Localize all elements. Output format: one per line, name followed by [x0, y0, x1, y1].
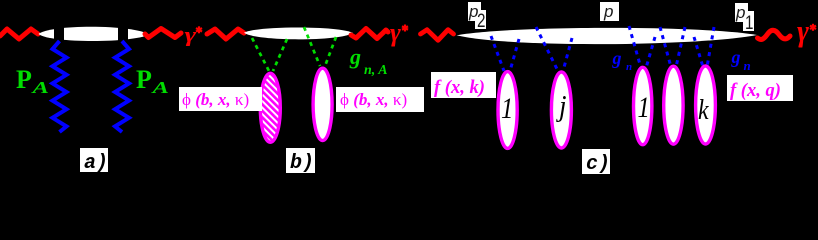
wire: blue dashed leg E2 right	[563, 38, 572, 71]
blob E4	[664, 66, 683, 144]
svg-text:n: n	[626, 61, 632, 73]
label p1	[735, 3, 754, 33]
svg-text:1: 1	[745, 11, 753, 33]
svg-text:γ: γ	[797, 15, 810, 48]
blob a: white lens	[39, 27, 150, 41]
wire: nucleus line right (blue zigzag)	[115, 41, 129, 132]
svg-text:A: A	[30, 78, 49, 97]
svg-text:c): c)	[586, 153, 610, 175]
wire: blue dashed leg E5 left	[694, 37, 703, 67]
label gamma* b	[390, 18, 408, 47]
svg-text:2: 2	[477, 9, 485, 31]
blob: hatched phi ellipse	[260, 73, 280, 142]
wire: nucleus line left (blue zigzag)	[53, 41, 67, 132]
label f(x,k)	[431, 72, 496, 98]
svg-text:P: P	[16, 65, 32, 94]
svg-text:k: k	[698, 94, 709, 125]
wire: blue dashed leg E4 left	[660, 27, 671, 67]
label f(x,q)	[727, 75, 793, 101]
wire: blue dashed leg E3 right	[646, 37, 655, 68]
svg-text:f (x, k): f (x, k)	[434, 78, 485, 98]
label a)	[80, 148, 108, 175]
svg-text:g: g	[731, 47, 741, 67]
svg-text:n: n	[744, 58, 751, 73]
label P_A right	[136, 65, 169, 97]
label gamma* c	[797, 15, 816, 48]
wire: outgoing photon wavy line b	[351, 29, 388, 39]
wire: outgoing photon wavy line a	[145, 29, 181, 38]
label g_{n,A}	[349, 44, 388, 78]
blob E5	[696, 66, 716, 144]
svg-text:ϕ (b, x, κ): ϕ (b, x, κ)	[340, 90, 407, 109]
wire: blue dashed leg E2 left	[536, 27, 558, 71]
svg-text:ϕ (b, x, κ): ϕ (b, x, κ)	[182, 90, 249, 109]
svg-text:b): b)	[290, 152, 314, 175]
wire: blue dashed leg E1 left	[491, 36, 504, 71]
cut bar 2 on blob a	[118, 20, 128, 48]
blob E2	[551, 72, 571, 148]
label p2	[468, 2, 486, 31]
blob E3	[634, 67, 652, 144]
wire: incoming photon wavy line b	[207, 29, 244, 39]
label g_n left	[612, 48, 633, 73]
svg-text:A: A	[150, 78, 169, 97]
svg-text:g: g	[349, 44, 361, 69]
svg-text:P: P	[136, 65, 152, 94]
wire: gluon dashed line 1 (to left phi blob)	[252, 38, 269, 71]
blob b: white lens	[244, 27, 353, 39]
label phi(b,x,kappa) left	[179, 87, 262, 111]
wire: blue dashed leg E5 right	[707, 27, 714, 67]
blob: white phi ellipse	[313, 68, 332, 140]
wire: gluon dashed line 4 (to right phi blob)	[325, 37, 336, 66]
svg-text:f (x, q): f (x, q)	[730, 81, 781, 101]
wire: outgoing photon wavy line c	[758, 30, 791, 39]
wire: incoming photon wavy line a	[0, 29, 38, 39]
blob c: long white lens	[457, 28, 758, 44]
wire: blue dashed leg E1 right	[510, 39, 519, 71]
svg-text:γ: γ	[390, 18, 401, 47]
cut bar 1 on blob a	[54, 20, 64, 48]
label P_A left	[16, 65, 49, 97]
wire: gluon dashed line 3 (to right phi blob)	[304, 27, 320, 66]
svg-text:p: p	[735, 3, 745, 22]
wire: blue dashed leg E3 left	[629, 26, 641, 68]
svg-text:1: 1	[501, 92, 513, 125]
label p	[600, 2, 619, 21]
label g_n right	[731, 47, 751, 73]
label gamma* a	[185, 24, 203, 47]
svg-text:g: g	[612, 48, 622, 68]
wire: incoming photon wavy line c	[421, 30, 454, 41]
svg-text:γ: γ	[185, 24, 197, 47]
svg-text:p: p	[603, 2, 613, 21]
svg-text:n, A: n, A	[364, 63, 388, 78]
label phi(b,x,kappa) right	[336, 87, 424, 112]
svg-text:a): a)	[84, 152, 108, 175]
blob E1	[498, 72, 517, 149]
wire: blue dashed leg E4 right	[676, 27, 685, 67]
label b)	[286, 148, 315, 175]
wire: gluon dashed line 2 (to left phi blob)	[273, 39, 287, 71]
svg-text:1: 1	[638, 91, 650, 124]
label c)	[582, 149, 610, 176]
